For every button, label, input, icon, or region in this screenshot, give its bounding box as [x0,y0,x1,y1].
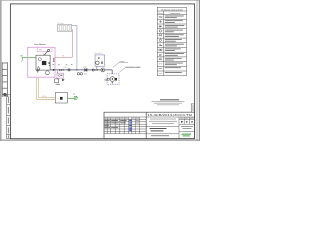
XVS inlet arrow [22,57,24,59]
wire: main pipe drop [111,70,113,74]
svg-text:Условные обозначения: Условные обозначения [161,9,183,11]
title block [104,112,195,139]
title block header tiny labels [105,117,139,120]
legend row symbols [159,16,163,73]
meter assembly box [36,55,50,70]
water heater box [55,93,67,104]
bottom-left cell text [151,134,169,137]
valve V3 [85,68,87,71]
wire: XVS green pipe [24,57,37,59]
hot water unit box [95,55,105,66]
meter outlet fitting 2 [49,65,50,67]
title block row labels [105,120,127,128]
union U1 [68,69,70,71]
node dot [63,69,64,70]
sink unit dashed box [107,74,119,85]
left margin vertical labels [7,97,10,138]
pipe annotation dots [53,64,73,65]
notes text block [152,99,185,105]
wire: makeup tan pipe horizontal 2 [37,99,56,101]
wire: makeup tan pipe vertical 2 [38,77,40,97]
svg-text:Ø20: Ø20 [63,67,66,69]
right margin cell above title block [191,104,194,112]
riser bottom fitting [4,93,7,96]
towel rail manifold [58,24,72,31]
gauge G1 [38,58,41,61]
svg-text:Наименование: Наименование [170,13,181,15]
wire: makeup tan pipe horizontal 1 [39,97,56,99]
drain label [56,84,61,85]
wire: blue pipe vertical [76,25,78,70]
wire: main pipe [50,69,112,71]
drawing frame border [10,4,194,139]
wire: green outlet pipe [67,97,73,99]
heater element [60,97,63,100]
wire: T3 red pipe horizontal [55,56,72,58]
project description lines [149,119,177,124]
wire: makeup tan pipe vertical 1 [36,77,38,99]
sink left fitting [108,78,109,80]
left margin attribute column [7,95,11,139]
sheet title lines [150,128,167,131]
drain branch pipe [56,70,58,74]
stage cells labels [180,117,194,120]
svg-text:Смеситель в компл.: Смеситель в компл. [126,66,142,68]
drain unit boundary [57,73,64,78]
union U2 [92,69,94,71]
valve V2 [59,69,62,72]
valve V1 [43,49,49,56]
svg-text:Обозн.: Обозн. [158,13,163,15]
pump P1 [46,71,50,75]
signatures blue [129,120,132,132]
sink bottom dot [112,82,113,83]
svg-text:Ø15: Ø15 [39,50,42,52]
drain unit internals [59,75,61,77]
meter tag frame [37,47,52,52]
node junction A [53,69,54,71]
svg-text:Ø15: Ø15 [84,74,87,76]
outside fitting [105,79,106,81]
legend row texts [165,16,185,73]
svg-text:Узел ГВС 1: Узел ГВС 1 [94,53,102,55]
svg-text:В1: В1 [73,94,75,96]
drain funnel [55,79,59,83]
sensor dot [98,57,99,58]
block boundary (pink unit box) [28,47,55,77]
T3 vertical label [53,58,55,60]
legend table [157,7,186,75]
valve V4 stem [96,66,98,69]
sink drain circle [110,77,115,82]
dates grey [136,120,139,123]
company cell lines [181,126,193,129]
riser ladder (stояк) [2,62,7,97]
approval stamp green [181,134,191,137]
svg-text:Ø15ст: Ø15ст [42,96,47,98]
callout leader 2 [119,68,140,73]
meter outlet fitting [49,62,51,64]
sink right fitting [115,78,117,81]
wire: T3 red pipe vertical [71,29,73,57]
svg-text:15-АКВ/2014-ИОС4.ТМ: 15-АКВ/2014-ИОС4.ТМ [148,114,193,117]
sensor S2 [101,62,102,64]
callout leader 1 [113,63,128,68]
page outer edge shading [0,0,200,141]
drain symbol [36,71,39,73]
gauge G3 [80,73,82,75]
svg-text:Блок Агрегат: Блок Агрегат [34,43,46,46]
outlet valve green [74,96,77,99]
svg-text:Т3: Т3 [62,55,64,57]
node T-junction [76,69,77,70]
gauge G4 [96,61,99,64]
drain pump [62,79,65,82]
wire: blue pipe horizontal [72,24,77,26]
svg-text:Сифон: Сифон [119,60,124,63]
pump P2 [101,68,105,72]
stage values [181,121,193,123]
water meter M1 [42,61,46,65]
filter F1 [37,67,40,70]
XVS arrow tail [22,59,23,62]
gauge G2 [77,73,79,75]
valve V4 [96,69,98,71]
